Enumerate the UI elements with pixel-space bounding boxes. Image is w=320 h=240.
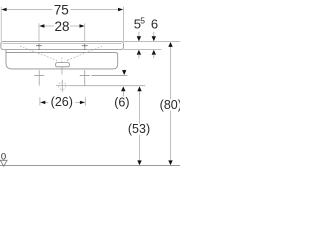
svg-text:(80): (80) bbox=[160, 98, 180, 112]
svg-text:75: 75 bbox=[54, 2, 69, 17]
svg-text:(53): (53) bbox=[128, 122, 150, 136]
svg-text:5: 5 bbox=[140, 15, 145, 25]
svg-text:28: 28 bbox=[54, 19, 69, 34]
svg-text:6: 6 bbox=[151, 16, 158, 31]
svg-text:(6): (6) bbox=[114, 95, 129, 109]
svg-text:(26): (26) bbox=[51, 95, 73, 109]
